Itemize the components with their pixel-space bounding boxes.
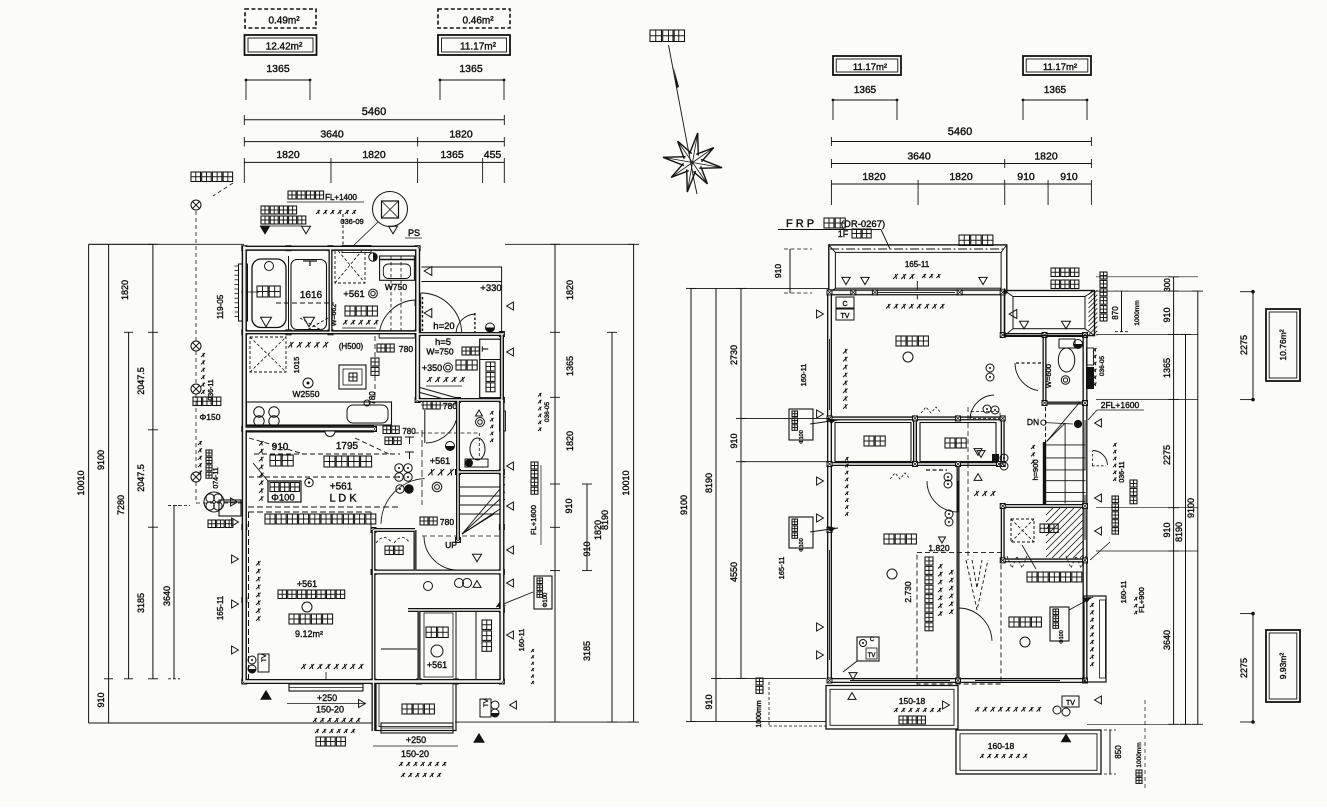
bath window left <box>239 264 248 321</box>
svg-text:2047.5: 2047.5 <box>136 367 146 395</box>
svg-text:5460: 5460 <box>362 106 386 118</box>
washitsu inner lines <box>455 612 457 682</box>
jamb dashes washroom <box>390 256 392 331</box>
kukaku line label <box>265 514 275 524</box>
svg-text:1F: 1F <box>838 229 849 239</box>
svg-text:910: 910 <box>729 433 739 448</box>
north line <box>669 45 695 180</box>
svg-text:780: 780 <box>368 391 377 405</box>
svg-text:1820: 1820 <box>276 149 300 161</box>
2275 bracket lower <box>1252 614 1254 722</box>
svg-text:3640: 3640 <box>320 129 344 141</box>
svg-text:TV: TV <box>1066 700 1075 707</box>
svg-text:1365: 1365 <box>565 356 575 376</box>
bathroom tub <box>252 259 286 328</box>
svg-text:0.46m²: 0.46m² <box>462 16 494 27</box>
svg-text:910: 910 <box>1017 171 1035 183</box>
closets <box>835 423 911 462</box>
svg-text:1000mm: 1000mm <box>1136 742 1143 767</box>
1F right annotations <box>538 393 542 397</box>
svg-text:FL+900: FL+900 <box>1137 587 1146 613</box>
area box 11.17 (2F-2) <box>1023 56 1091 75</box>
svg-text:+250: +250 <box>317 693 337 703</box>
1F walls <box>244 246 417 251</box>
svg-text:h=20: h=20 <box>433 321 454 332</box>
curtain rail bottom bedroom <box>301 664 306 669</box>
LDK-hall door arc <box>381 479 425 524</box>
svg-text:1365: 1365 <box>1162 358 1172 378</box>
bath door dashes <box>300 318 328 334</box>
svg-text:10.76m²: 10.76m² <box>1278 329 1288 360</box>
svg-text:150-20: 150-20 <box>401 749 429 759</box>
svg-text:F R P: F R P <box>786 218 814 230</box>
yuka chousei <box>1112 496 1119 503</box>
svg-text:1365: 1365 <box>459 63 483 75</box>
1F right dims <box>554 244 556 722</box>
svg-text:1820: 1820 <box>120 280 130 300</box>
oshiire door dashes <box>376 538 392 544</box>
svg-text:780: 780 <box>443 401 457 411</box>
svg-text:W2550: W2550 <box>293 389 320 399</box>
moya text left wall <box>845 457 849 461</box>
1F column markers <box>242 246 247 251</box>
svg-text:L D K: L D K <box>329 493 357 505</box>
stairs 1F <box>460 486 500 488</box>
yuko780 labels <box>377 344 385 352</box>
svg-text:Φ100: Φ100 <box>1059 630 1065 644</box>
kitchen labels <box>288 342 294 348</box>
washbasin <box>380 256 415 280</box>
2F right dims <box>1173 277 1175 725</box>
svg-text:+330: +330 <box>480 283 501 294</box>
vent fan left <box>193 397 202 406</box>
TV boxes porch right <box>480 699 491 717</box>
outlet circles hall <box>395 464 403 472</box>
label saishuumasu-he <box>191 172 201 182</box>
svg-text:036-09: 036-09 <box>340 217 363 226</box>
north label <box>650 30 662 42</box>
svg-text:12.42m²: 12.42m² <box>266 42 303 53</box>
range hood dashed <box>250 337 286 372</box>
yoshitsuC <box>1009 617 1019 627</box>
svg-text:+561: +561 <box>430 456 450 466</box>
svg-text:074-11: 074-11 <box>213 467 220 488</box>
rikuyane top <box>959 235 970 246</box>
yoshitsuA <box>896 336 906 346</box>
svg-text:9.12m²: 9.12m² <box>295 629 323 639</box>
svg-text:2275: 2275 <box>1239 658 1249 678</box>
right rot specs 2F <box>1093 348 1097 352</box>
attic dashed rect <box>917 552 1001 684</box>
north barb <box>674 67 680 88</box>
svg-text:300: 300 <box>1163 278 1172 292</box>
right wall triangles 1F <box>507 302 514 310</box>
balcony bottom right <box>956 730 1101 774</box>
laundry dashed box <box>335 247 365 283</box>
svg-text:160-11: 160-11 <box>799 364 808 387</box>
bathroom labels <box>257 286 268 297</box>
svg-text:1820: 1820 <box>862 171 886 183</box>
svg-text:910: 910 <box>96 692 106 707</box>
sink <box>347 405 388 423</box>
svg-text:780: 780 <box>402 427 416 436</box>
water heater <box>219 500 241 516</box>
svg-text:9100: 9100 <box>679 495 689 515</box>
svg-text:+350: +350 <box>422 363 442 373</box>
svg-text:150-18: 150-18 <box>899 696 926 706</box>
svg-text:Φ100: Φ100 <box>543 592 549 607</box>
svg-text:910: 910 <box>1162 522 1172 537</box>
2F balcony top <box>829 245 1007 293</box>
svg-text:3640: 3640 <box>162 586 172 606</box>
svg-text:C: C <box>842 301 847 308</box>
triangles 2F right wall <box>1095 419 1102 427</box>
shoe cabinet <box>480 339 504 398</box>
870 dim <box>1121 291 1123 332</box>
svg-text:2FL+1600: 2FL+1600 <box>1101 400 1140 410</box>
top triangles <box>261 226 270 234</box>
svg-text:160-18: 160-18 <box>988 741 1015 751</box>
svg-text:T: T <box>480 346 490 351</box>
svg-text:TV: TV <box>841 313 850 320</box>
dark wall block right <box>1086 367 1094 389</box>
closet shu box <box>339 365 366 389</box>
svg-text:1365: 1365 <box>854 85 877 96</box>
TVC yoshitsuB <box>857 637 879 661</box>
toilet 1F <box>465 459 488 467</box>
svg-text:3640: 3640 <box>1162 630 1172 650</box>
svg-text:036-11: 036-11 <box>1119 461 1126 482</box>
svg-text:11.17m²: 11.17m² <box>1043 62 1077 73</box>
bedroom lower door arc <box>424 537 457 570</box>
svg-text:+561: +561 <box>330 482 353 493</box>
svg-text:910: 910 <box>773 264 783 278</box>
outlet symbols 2F <box>986 364 994 372</box>
kitchen counter <box>247 402 392 425</box>
svg-text:1616: 1616 <box>300 290 323 301</box>
svg-text:1000mm: 1000mm <box>756 700 763 727</box>
svg-text:(H500): (H500) <box>339 342 364 351</box>
svg-text:1820: 1820 <box>362 149 386 161</box>
area box 12.42 <box>245 35 317 55</box>
area box 10.76 <box>1266 309 1300 381</box>
svg-text:7280: 7280 <box>116 495 126 515</box>
toilet door <box>1016 362 1043 364</box>
svg-text:+561: +561 <box>343 289 364 300</box>
svg-text:910: 910 <box>564 498 574 513</box>
svg-text:5460: 5460 <box>948 126 972 138</box>
svg-text:1820: 1820 <box>565 431 575 451</box>
corridor dashes <box>374 336 376 400</box>
1F window glass lines <box>243 365 245 425</box>
svg-text:+561: +561 <box>297 579 317 589</box>
svg-text:1795: 1795 <box>336 441 359 452</box>
svg-text:036-11: 036-11 <box>208 379 215 400</box>
svg-text:0.49m²: 0.49m² <box>268 16 300 27</box>
svg-text:1365: 1365 <box>440 149 464 161</box>
area box 11.17 (2F-1) <box>833 56 901 75</box>
svg-text:160-11: 160-11 <box>517 629 526 652</box>
left wall triangles <box>232 518 239 526</box>
svg-text:165-11: 165-11 <box>777 557 786 580</box>
svg-text:2275: 2275 <box>1239 335 1249 355</box>
svg-text:Φ100: Φ100 <box>271 493 294 504</box>
850 bottom right <box>1109 730 1111 774</box>
svg-text:FL+1600: FL+1600 <box>529 505 538 535</box>
svg-text:1.820: 1.820 <box>928 543 950 553</box>
stairs 2F <box>1045 407 1047 504</box>
kyuukiko yoshitsuC <box>1050 607 1069 641</box>
svg-text:4550: 4550 <box>729 562 739 582</box>
svg-text:165-11: 165-11 <box>905 260 930 269</box>
svg-text:1365: 1365 <box>1044 85 1067 96</box>
half circle tap <box>369 253 377 261</box>
svg-text:2047.5: 2047.5 <box>136 464 146 492</box>
TVC yoshitsuC <box>1062 696 1079 707</box>
triangles 2F left wall <box>817 310 824 318</box>
svg-text:160-11: 160-11 <box>1119 581 1128 604</box>
svg-text:910: 910 <box>1060 171 1078 183</box>
entrance step diagonal <box>418 387 457 398</box>
bath dashes <box>276 302 334 304</box>
area box 0.46 <box>438 9 510 28</box>
svg-text:455: 455 <box>484 149 502 161</box>
svg-text:150-20: 150-20 <box>316 705 344 715</box>
svg-text:9.93m²: 9.93m² <box>1278 653 1288 680</box>
door arcs 2F <box>970 395 994 419</box>
north star <box>689 133 698 156</box>
1F porch outline bottom <box>376 684 456 731</box>
svg-text:1365: 1365 <box>266 63 290 75</box>
svg-text:910: 910 <box>704 694 714 709</box>
area box 11.17 left <box>438 35 510 55</box>
svg-text:PS: PS <box>408 228 420 238</box>
svg-text:8190: 8190 <box>1174 522 1184 542</box>
stove <box>254 407 264 417</box>
svg-text:8190: 8190 <box>704 473 714 493</box>
svg-text:1820: 1820 <box>449 129 473 141</box>
kyuukiko 1F box <box>268 481 301 502</box>
area box 0.49 <box>245 9 316 28</box>
svg-text:Φ100: Φ100 <box>799 538 805 552</box>
svg-text:2730: 2730 <box>729 345 739 365</box>
svg-text:+561: +561 <box>427 660 447 670</box>
top wall hatch window <box>342 246 371 253</box>
svg-text:3640: 3640 <box>907 151 931 163</box>
svg-text:036-05: 036-05 <box>544 402 551 423</box>
LDK label <box>305 478 313 486</box>
2275 bracket upper <box>1252 292 1254 400</box>
svg-text:W=750: W=750 <box>426 347 453 357</box>
svg-text:Φ150: Φ150 <box>200 412 221 422</box>
drain symbol chain <box>191 200 201 210</box>
1F left dims <box>88 244 90 723</box>
svg-text:DN: DN <box>1027 417 1039 427</box>
svg-text:1000mm: 1000mm <box>1134 300 1141 325</box>
svg-text:1820: 1820 <box>949 171 973 183</box>
kan2 <box>974 491 979 496</box>
2F walls <box>244 246 417 251</box>
svg-text:870: 870 <box>1111 306 1120 320</box>
svg-text:+250: +250 <box>406 735 426 745</box>
svg-text:119-05: 119-05 <box>216 294 225 319</box>
PS leader texts <box>288 191 296 199</box>
svg-text:Φ100: Φ100 <box>799 430 805 444</box>
svg-text:9100: 9100 <box>96 450 106 470</box>
svg-text:C: C <box>870 637 875 643</box>
svg-text:2.730: 2.730 <box>903 581 913 603</box>
svg-text:10010: 10010 <box>621 470 631 495</box>
washroom door arc <box>379 300 416 338</box>
balcony bottom left <box>826 686 958 730</box>
svg-text:780: 780 <box>440 517 454 527</box>
svg-text:1820: 1820 <box>565 280 575 300</box>
door closer ball <box>486 323 495 332</box>
svg-text:TV: TV <box>868 653 876 659</box>
2F window glass <box>877 291 955 293</box>
svg-text:910: 910 <box>1162 307 1172 322</box>
2F columns <box>827 290 832 295</box>
yakumono text <box>1100 272 1107 279</box>
bay window right <box>1084 596 1106 682</box>
svg-text:UP: UP <box>445 540 457 550</box>
genkan roof <box>1005 291 1095 336</box>
porch roof band 1F <box>421 266 502 268</box>
mono-oki block <box>1046 508 1083 558</box>
svg-text:TV: TV <box>483 698 490 707</box>
svg-text:3185: 3185 <box>582 641 592 661</box>
svg-text:TV: TV <box>261 653 268 662</box>
kyuukiko boxes 2F left <box>789 409 813 440</box>
oshiire <box>385 546 394 555</box>
svg-text:8190: 8190 <box>600 510 610 530</box>
yoshitsuB <box>884 534 894 544</box>
svg-text:W750: W750 <box>385 282 407 292</box>
svg-text:1015: 1015 <box>292 357 301 374</box>
svg-text:11.17m²: 11.17m² <box>853 62 887 73</box>
area box 9.93 <box>1266 630 1300 702</box>
bedroom left curtain text <box>259 441 264 446</box>
svg-text:2275: 2275 <box>1162 445 1172 465</box>
svg-text:165-11: 165-11 <box>216 595 225 620</box>
bottom filled triangles <box>261 691 271 699</box>
handrail T marks <box>405 436 414 438</box>
svg-text:11.17m²: 11.17m² <box>460 42 497 53</box>
balcony910 dim <box>789 249 791 293</box>
svg-text:036-05: 036-05 <box>1099 356 1106 377</box>
shower pan <box>291 260 327 330</box>
svg-text:1820: 1820 <box>1034 151 1058 163</box>
window swing right <box>1093 451 1108 466</box>
strip symbols <box>424 582 433 591</box>
svg-text:10010: 10010 <box>76 470 86 495</box>
svg-text:780: 780 <box>399 344 413 354</box>
hall door arc <box>424 410 426 443</box>
hanger V dashes C <box>966 560 988 610</box>
svg-text:3185: 3185 <box>136 593 146 613</box>
svg-text:W=600: W=600 <box>1044 364 1053 388</box>
2F left dims <box>690 288 692 721</box>
svg-text:FL+1400: FL+1400 <box>325 193 357 202</box>
washitsu <box>426 627 437 638</box>
entrance porch arcs <box>421 293 462 333</box>
kukaku dashed rect <box>248 506 400 508</box>
svg-text:850: 850 <box>1114 745 1123 759</box>
TV boxes bottom left <box>248 656 256 664</box>
toilet 2F <box>1059 339 1075 348</box>
